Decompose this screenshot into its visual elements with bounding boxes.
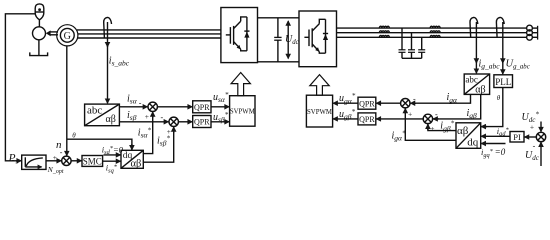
- wire theta to dq block: [67, 139, 132, 150]
- svg-text:PLL: PLL: [495, 77, 511, 87]
- wire anemometer to turbine: [38, 20, 40, 27]
- DC bus bottom wire: [258, 61, 300, 63]
- DC-link capacitor: [274, 18, 281, 62]
- SMC block: [82, 156, 103, 167]
- wire theta PLL to dq2: [481, 88, 503, 127]
- wire isd ref zero: [104, 154, 121, 156]
- QPR block 2: [193, 116, 211, 128]
- label n: [56, 139, 62, 151]
- wire ig_abc measurement: [475, 22, 477, 73]
- svg-text:usα*: usα*: [213, 91, 229, 104]
- svg-text:igα: igα: [447, 92, 459, 104]
- svg-text:G: G: [64, 31, 71, 42]
- inductor L2 phase a: [430, 26, 440, 28]
- DC bus top wire: [258, 17, 300, 19]
- svg-text:abc: abc: [465, 75, 478, 85]
- grid bus bar: [532, 26, 537, 40]
- label igd ref: [497, 126, 510, 138]
- svg-text:-: -: [139, 98, 142, 107]
- label Udc ref: [522, 111, 540, 124]
- svg-text:PI: PI: [513, 132, 521, 142]
- wire igbeta from abc2: [433, 94, 481, 119]
- wire igq ref zero: [481, 143, 505, 145]
- svg-text:Udc: Udc: [285, 34, 299, 46]
- sign plus G1: [408, 109, 412, 118]
- summing junction G2: [423, 114, 432, 123]
- MPPT curve block: [22, 155, 46, 169]
- SVPWM block grid: [306, 95, 332, 127]
- turbine support ground: [30, 40, 48, 56]
- wire ugalpha to SVPWM2: [333, 102, 358, 104]
- label ugbeta ref: [339, 108, 356, 121]
- label is_abc: [109, 56, 130, 68]
- wire isq ref SMC to dq: [103, 160, 121, 162]
- diode D1 machine-side: [244, 17, 249, 51]
- sign minus G2: [435, 110, 438, 119]
- label Udc measured: [525, 150, 540, 162]
- PI block: [510, 132, 524, 143]
- svg-text:isα: isα: [127, 93, 138, 105]
- sign plus J2: [167, 127, 171, 136]
- label igalpha: [447, 92, 459, 104]
- svg-text:SVPWM: SVPWM: [230, 109, 255, 116]
- label isalpha: [127, 93, 138, 105]
- svg-text:n: n: [56, 139, 62, 151]
- PLL block: [494, 75, 513, 88]
- QPR block 3: [358, 97, 376, 109]
- gate drive arrow grid: [310, 75, 329, 96]
- svg-text:+: +: [430, 124, 434, 133]
- wire Udc junction to PI: [525, 136, 537, 138]
- label Ug_abc: [506, 59, 530, 71]
- block alphabeta-dq grid: [456, 123, 481, 149]
- svg-text:QPR: QPR: [194, 118, 210, 127]
- wire stator phase c: [77, 37, 221, 39]
- label isd ref zero: [102, 144, 124, 156]
- voltage sensor bracket grid: [496, 17, 504, 37]
- svg-text:Ug_abc: Ug_abc: [506, 59, 530, 71]
- sign minus G1: [413, 94, 416, 103]
- svg-text:αβ: αβ: [457, 125, 469, 137]
- wire igalpha from abc2: [411, 94, 471, 103]
- inductor L1 phase a: [379, 26, 389, 28]
- wire igbeta ref feedback: [428, 124, 456, 130]
- svg-text:αβ: αβ: [475, 84, 485, 95]
- svg-text:isβ: isβ: [127, 110, 137, 122]
- inductor L1 phase c: [379, 35, 389, 37]
- label igq ref zero: [481, 147, 506, 159]
- turbine rotor: [33, 27, 46, 40]
- sign minus J2: [161, 113, 164, 122]
- QPR block 4: [358, 113, 376, 125]
- label isalpha ref: [138, 126, 152, 139]
- svg-text:-: -: [533, 141, 536, 150]
- svg-text:+: +: [408, 109, 412, 118]
- summing junction J2: [169, 117, 178, 126]
- grid-side converter box: [299, 11, 337, 67]
- svg-text:QPR: QPR: [359, 99, 375, 108]
- summing junction Udc: [536, 132, 545, 141]
- wire G1 to QPR3: [376, 102, 400, 104]
- wire usalpha to SVPWM: [211, 106, 229, 108]
- sign plus G2: [430, 124, 434, 133]
- label ig_abc: [479, 58, 501, 70]
- wire MPPT to n-junction: [46, 160, 61, 162]
- svg-text:igα*: igα*: [392, 129, 406, 142]
- label usalpha ref: [213, 91, 229, 104]
- inductor L2 phase b: [430, 31, 440, 33]
- summing junction G1: [401, 99, 410, 108]
- wire anemometer to left rail: [5, 14, 35, 161]
- Udc measurement arrow: [287, 21, 289, 59]
- filter capacitor Cf3: [418, 37, 425, 58]
- label N_opt: [47, 165, 64, 175]
- wire igalpha ref feedback: [405, 109, 456, 141]
- svg-text:Ps: Ps: [8, 153, 19, 166]
- wire Udc ref in: [540, 122, 542, 132]
- svg-text:-: -: [413, 94, 416, 103]
- svg-text:isq*: isq*: [106, 163, 118, 175]
- wire usbeta to SVPWM: [211, 121, 229, 123]
- SVPWM block machine: [230, 96, 255, 127]
- sign minus J1: [139, 98, 142, 107]
- svg-text:QPR: QPR: [359, 115, 375, 124]
- wire n-junction to SMC: [71, 160, 81, 162]
- grid terminal c: [527, 34, 533, 40]
- wire grid phase c: [337, 36, 527, 38]
- filter capacitor Cf1: [399, 28, 406, 58]
- wire J1 to QPR1: [157, 106, 192, 108]
- label igbeta ref: [440, 120, 454, 133]
- svg-text:αβ: αβ: [106, 114, 116, 125]
- label Ps: [8, 153, 19, 166]
- svg-text:αβ: αβ: [131, 158, 142, 169]
- label isbeta ref: [157, 134, 170, 147]
- wire isalpha: [119, 106, 147, 108]
- gate drive arrow machine: [231, 73, 250, 96]
- svg-text:is_abc: is_abc: [109, 56, 130, 68]
- sign minus n-junction: [60, 148, 63, 157]
- wire stator phase b: [78, 33, 221, 35]
- wire grid phase b: [337, 32, 527, 34]
- sign plus n-junction: [53, 153, 57, 162]
- wire Ug_abc measurement: [502, 22, 504, 74]
- summing junction n: [62, 156, 71, 165]
- svg-text:θ: θ: [72, 131, 76, 139]
- wire isbeta ref feedback: [143, 127, 173, 162]
- generator G: [57, 25, 78, 46]
- grid terminal a: [527, 25, 533, 31]
- anemometer wind sensor: [35, 4, 44, 20]
- svg-text:SVPWM: SVPWM: [307, 109, 332, 116]
- IGBT Q2 grid-side: [304, 19, 325, 53]
- filter neutral bus: [402, 57, 422, 59]
- label igbeta: [467, 108, 478, 120]
- block abc-alphabeta machine: [85, 104, 120, 126]
- current sensor bracket stator: [104, 17, 112, 37]
- svg-text:QPR: QPR: [194, 103, 210, 112]
- wire isalpha ref feedback: [143, 112, 152, 154]
- wire J2 to QPR2: [178, 121, 192, 123]
- block abc-alphabeta grid: [464, 74, 489, 95]
- sign plus J1: [145, 112, 149, 121]
- wire isbeta: [119, 121, 168, 123]
- QPR block 1: [193, 101, 211, 113]
- block dq-alphabeta machine: [121, 150, 143, 169]
- svg-text:-: -: [161, 113, 164, 122]
- sign plus Udc junction: [530, 122, 534, 131]
- summing junction J1: [148, 102, 157, 111]
- label isq ref: [106, 163, 118, 175]
- label theta machine: [72, 131, 76, 139]
- filter capacitor Cf2: [408, 33, 415, 59]
- wire is_abc measurement: [107, 22, 109, 103]
- svg-text:SMC: SMC: [83, 157, 102, 167]
- wire G2 to QPR4: [376, 118, 423, 120]
- svg-text:igβ: igβ: [467, 108, 478, 120]
- IGBT Q1 machine-side: [226, 17, 247, 51]
- label usbeta ref: [213, 111, 229, 124]
- svg-text:isβ*: isβ*: [157, 134, 170, 147]
- svg-text:dq: dq: [467, 136, 479, 148]
- svg-text:+: +: [53, 153, 57, 162]
- wire igd ref PI to dq2: [481, 135, 510, 137]
- label ugalpha ref: [339, 92, 356, 105]
- svg-text:-: -: [435, 110, 438, 119]
- wire Udc measured in: [540, 142, 542, 166]
- label theta grid: [497, 94, 501, 102]
- svg-text:+: +: [145, 112, 149, 121]
- wire n feedback from generator: [66, 46, 68, 156]
- wire grid phase a: [337, 27, 527, 29]
- inductor L2 phase c: [430, 35, 440, 37]
- machine-side converter box: [221, 8, 258, 63]
- svg-text:Udc: Udc: [525, 150, 540, 162]
- label isbeta: [127, 110, 137, 122]
- diode D2 grid-side: [323, 19, 328, 53]
- wire ugbeta to SVPWM2: [333, 118, 358, 120]
- svg-text:igq*=0: igq*=0: [481, 147, 506, 159]
- current sensor bracket grid: [470, 17, 478, 37]
- svg-text:θ: θ: [497, 94, 501, 102]
- shaft coupling arrow: [46, 30, 58, 36]
- svg-text:N_opt: N_opt: [47, 165, 64, 175]
- svg-text:ig_abc: ig_abc: [479, 58, 501, 70]
- wire stator phase a: [77, 29, 221, 31]
- label igalpha ref: [392, 129, 406, 142]
- svg-text:isα*: isα*: [138, 126, 152, 139]
- sign minus Udc junction: [533, 141, 536, 150]
- svg-text:abc: abc: [87, 105, 102, 117]
- grid terminal b: [527, 30, 533, 36]
- inductor L1 phase b: [379, 31, 389, 33]
- svg-text:+: +: [530, 122, 534, 131]
- label Udc: [285, 34, 299, 46]
